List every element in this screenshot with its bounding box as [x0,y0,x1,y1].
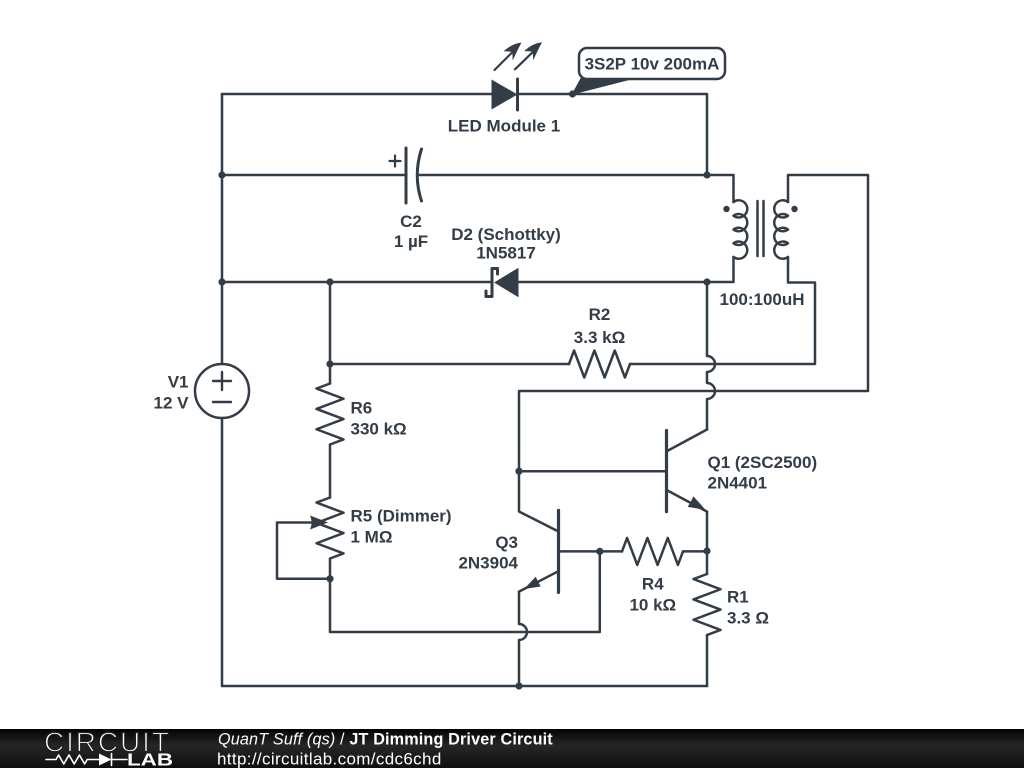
svg-text:R2: R2 [589,305,611,324]
LED arrow shaft 2 [515,51,534,69]
wire feedback from transformer secondary top down to base feed [519,175,868,471]
node C2 rail left [218,171,225,178]
resistor R5 dimmer zigzag [317,498,344,559]
svg-text:330 kΩ: 330 kΩ [351,420,407,439]
wire Q3 emitter down with hop over dimmer wire [519,592,527,686]
transistor Q3 emitter diagonal [519,571,559,591]
wire left rail lower (V1 bottom lead) [221,418,224,686]
V1 minus sign [213,401,231,403]
node top rail callout anchor [569,90,576,97]
svg-text:1 MΩ: 1 MΩ [351,528,393,547]
capacitor C2 right curved plate [417,149,421,201]
transformer primary phase dot [723,206,729,212]
LED arrowhead 2 [524,42,542,60]
svg-text:3.3 Ω: 3.3 Ω [727,609,769,628]
logo mini diode triangle [99,754,112,766]
wire transformer primary top stub [707,175,734,202]
node transformer primary top [703,171,710,178]
svg-text:C2: C2 [400,212,422,231]
wire R4 right lead [683,550,707,553]
transistor Q1 collector diagonal [667,430,708,452]
LED arrowhead 1 [504,43,522,61]
node Q3 emitter ground junction [515,682,522,689]
resistor R6 330k zigzag [317,384,344,445]
transistor Q1 emitter diagonal [667,490,708,512]
svg-text:D2 (Schottky): D2 (Schottky) [451,225,561,244]
resistor R2 3.3k zigzag [569,351,630,378]
wire top rail right from LED cathode to corner down to transformer top junction [518,94,708,175]
node transformer primary bottom [703,278,710,285]
V1 plus sign [213,372,231,390]
wire C2 rail left segment [222,174,406,177]
LED triangle [492,80,518,110]
svg-text:LED Module 1: LED Module 1 [448,117,560,136]
diode D2 schottky cathode bar with hooks [486,269,498,297]
svg-text:2N4401: 2N4401 [708,474,768,493]
svg-text:3.3 kΩ: 3.3 kΩ [574,328,625,347]
C2 plus sign [390,156,401,167]
svg-text:Q3: Q3 [495,533,518,552]
wire transformer primary bottom stub [707,257,734,282]
svg-text:1N5817: 1N5817 [476,244,536,263]
svg-text:2N3904: 2N3904 [458,554,518,573]
svg-text:R1: R1 [727,588,749,607]
svg-text:1 µF: 1 µF [394,232,428,251]
svg-text:V1: V1 [168,373,189,392]
capacitor C2 left plate [405,148,408,203]
footer bar [0,729,1024,768]
Q3 emitter arrowhead [524,577,541,589]
wire R1 top lead [706,551,709,574]
node R5 bottom junction [326,575,333,582]
wire top rail left from V1 top to LED anode [222,93,492,96]
voltage source V1 circle [195,364,249,418]
wire D2 rail left segment [222,281,492,284]
svg-text:R5 (Dimmer): R5 (Dimmer) [351,507,452,526]
svg-text:100:100uH: 100:100uH [720,290,805,309]
wire potentiometer wiper loop [277,523,330,579]
inductor transformer secondary coil [774,200,788,258]
svg-text:10 kΩ: 10 kΩ [629,596,676,615]
wire R1 bottom lead [706,635,709,686]
wire R5 bottom junction down and right to Q3 base riser [330,551,600,632]
logo mini schematic resistor and diode [46,754,127,766]
wire C2 rail right segment [420,174,708,177]
LED D1 cathode bar [516,79,519,110]
svg-text:Q1 (2SC2500): Q1 (2SC2500) [708,453,818,472]
diode D2 triangle [494,268,519,298]
wire R2 left lead [330,363,569,366]
svg-text:http://circuitlab.com/cdc6chd: http://circuitlab.com/cdc6chd [217,750,442,768]
svg-text:QuanT Suff (qs) / JT Dimming D: QuanT Suff (qs) / JT Dimming Driver Circ… [218,731,553,749]
node D2 rail left [218,278,225,285]
wire between R6 and R5 [329,445,332,498]
node R2 R6 junction [326,360,333,367]
wire R2 right lead up to transformer secondary bottom [630,257,815,364]
callout box 3S2P 10v 200mA [579,48,725,79]
transistor Q3 base bar [557,510,560,592]
svg-text:12 V: 12 V [154,394,190,413]
wire left rail upper (V1 top lead) [221,94,224,364]
transistor Q3 collector diagonal and riser [519,471,559,531]
LED arrow shaft 1 [495,52,514,71]
svg-text:R6: R6 [351,399,373,418]
transformer secondary phase dot [791,206,797,212]
svg-text:R4: R4 [642,575,664,594]
node Q1 base Q3 collector junction [515,468,522,475]
node Q1 emitter R4 R1 junction [703,547,710,554]
callout tail [573,79,634,95]
svg-text:LAB: LAB [127,750,173,768]
inductor transformer primary coil [734,200,748,258]
Q1 emitter arrowhead [688,496,706,509]
resistor R4 10k zigzag [622,538,683,565]
wire Q1 base lead [519,470,665,473]
transistor Q1 base bar [665,431,668,512]
wire Q1 emitter down to R4/R1 junction [706,512,709,551]
transistor Q3 base lead [559,550,600,553]
wire D2 rail right segment [519,281,708,284]
transformer core lines [758,201,764,256]
wire bottom ground rail [222,685,707,688]
wire R6 branch drop from D2 rail [329,282,332,384]
node Q3 base R4 junction [596,548,603,555]
wire R5 bottom lead to junction [329,559,332,579]
svg-text:3S2P 10v 200mA: 3S2P 10v 200mA [585,55,720,74]
resistor R1 3.3ohm zigzag [694,574,721,635]
wire center vertical with hops over R2 wire and base feed wire [707,282,715,430]
potentiometer wiper arrowhead [310,516,328,530]
node R6 branch tap [326,278,333,285]
wire R4 left lead [600,550,622,553]
